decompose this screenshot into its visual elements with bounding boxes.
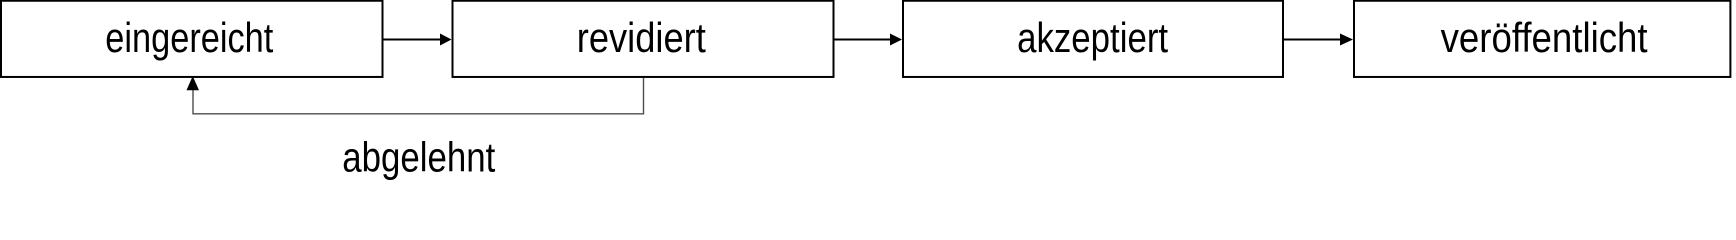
svg-text:revidiert: revidiert [577, 14, 706, 61]
svg-text:akzeptiert: akzeptiert [1017, 14, 1168, 61]
svg-text:veröffentlicht: veröffentlicht [1441, 14, 1648, 61]
svg-text:abgelehnt: abgelehnt [342, 134, 495, 181]
svg-text:eingereicht: eingereicht [105, 14, 273, 61]
